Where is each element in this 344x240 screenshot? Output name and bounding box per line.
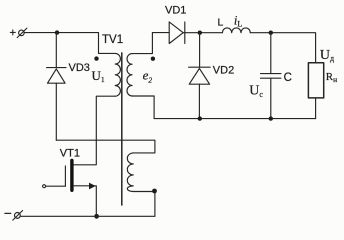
wire VD1 cathode to inductor L — [183, 32, 222, 34]
source lead wire of VT1 — [74, 186, 97, 217]
polarity dot primary winding — [94, 56, 98, 60]
wire top rail from + terminal to primary top — [24, 33, 115, 54]
diode VD1 — [169, 22, 185, 44]
transformer TV1 primary winding — [115, 53, 120, 96]
polarity dot e2 winding — [151, 57, 155, 61]
terminal - (minus input, bottom-left) — [5, 211, 23, 221]
svg-text:Rн: Rн — [326, 71, 337, 84]
wire VD2 branch down — [199, 33, 201, 67]
svg-text:iL: iL — [234, 13, 242, 28]
diode VD3 — [47, 68, 66, 84]
source arrow — [89, 183, 96, 190]
node L/C junction — [269, 31, 273, 35]
capacitor C — [261, 74, 281, 79]
winding e2 secondary — [127, 54, 132, 96]
diode VD2 — [189, 67, 211, 84]
wire RH bottom to rail — [315, 98, 317, 119]
svg-text:C: C — [284, 72, 292, 84]
node source / bottom rail junction — [94, 214, 99, 219]
transistor VT1 channel — [70, 160, 73, 190]
wire VD3 anode down to gate-circuit rail — [55, 83, 57, 140]
wire C branch down — [270, 33, 272, 74]
wire feedback winding bottom to rail — [133, 192, 155, 217]
wire VD2 anode to bottom rail — [198, 84, 200, 118]
node VD1/VD2 junction — [198, 31, 202, 35]
bottom rail wire — [20, 215, 155, 217]
svg-text:U1: U1 — [92, 68, 105, 84]
svg-text:Uc: Uc — [249, 84, 263, 99]
svg-text:VT1: VT1 — [60, 147, 80, 159]
node junction top rail / VD3 — [55, 30, 59, 34]
svg-text:L: L — [218, 16, 224, 28]
wire gate-circuit rail to lower winding top — [56, 140, 155, 153]
polarity dot feedback winding — [152, 189, 157, 194]
wire primary bottom to VT1 drain — [74, 96, 116, 165]
wire e2 bottom to secondary bottom rail — [132, 96, 316, 119]
svg-text:VD2: VD2 — [213, 64, 234, 76]
svg-text:Uд: Uд — [320, 48, 334, 63]
wire e2 top to VD1 anode — [132, 33, 169, 54]
core of TV1 — [121, 53, 123, 205]
gate lead wire with terminal — [43, 185, 66, 188]
svg-text:VD1: VD1 — [165, 4, 186, 16]
node VD2 bottom rail junction — [198, 116, 202, 120]
winding w1 feedback (lower) — [127, 153, 133, 192]
svg-text:e2: e2 — [143, 68, 153, 85]
terminal + (plus input, top-left) — [10, 28, 27, 37]
inductor L — [222, 28, 250, 33]
wire VD3 branch down — [55, 33, 57, 68]
node C bottom rail junction — [269, 116, 273, 120]
wire L to RH top — [250, 33, 315, 63]
svg-text:VD3: VD3 — [69, 62, 90, 74]
svg-text:TV1: TV1 — [102, 34, 123, 46]
transistor VT1 gate electrode — [64, 166, 66, 186]
resistor RH — [308, 63, 323, 98]
wire C bottom — [270, 78, 272, 118]
